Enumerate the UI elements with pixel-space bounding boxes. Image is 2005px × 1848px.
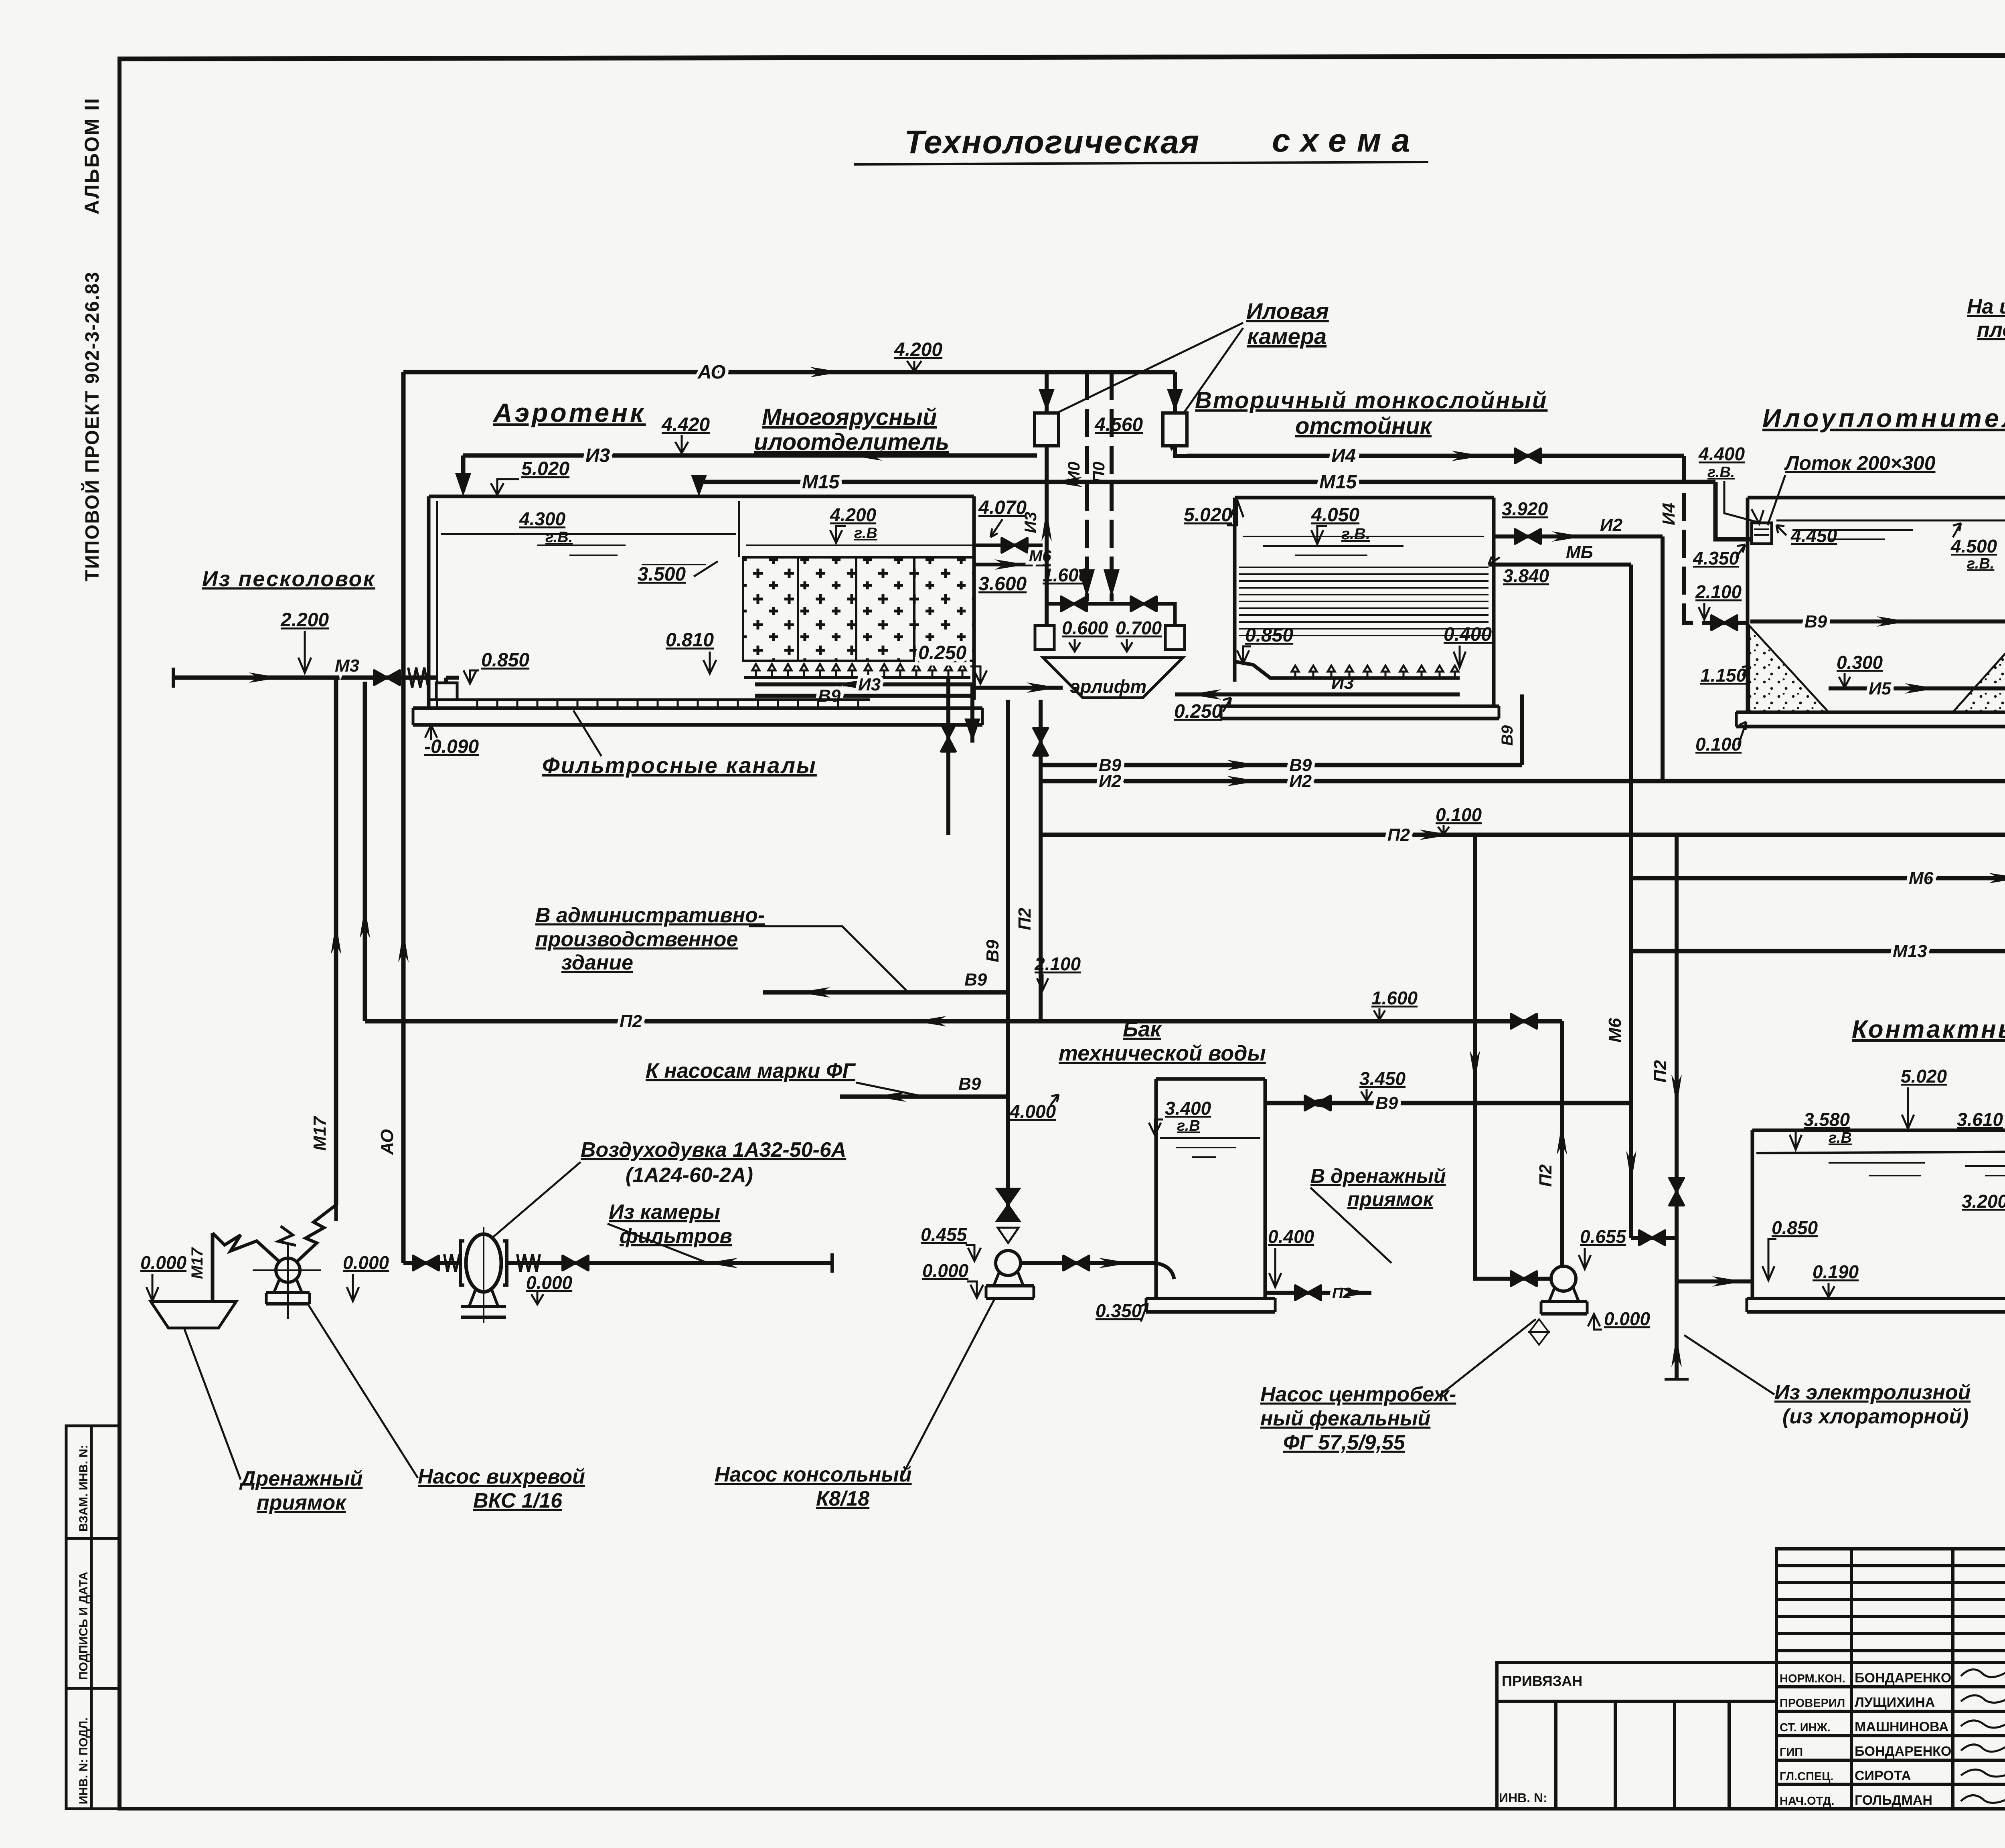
svg-text:0.700: 0.700 — [1116, 617, 1162, 638]
pipe В9 3.450 from water tank — [1265, 1101, 1631, 1105]
svg-text:И3: И3 — [585, 445, 610, 466]
svg-text:СТ. ИНЖ.: СТ. ИНЖ. — [1780, 1721, 1831, 1734]
svg-text:Вторичный тонкослойный: Вторичный тонкослойный — [1195, 387, 1547, 413]
svg-text:технической воды: технической воды — [1059, 1041, 1266, 1065]
svg-text:ИНВ. N:: ИНВ. N: — [1499, 1791, 1547, 1805]
svg-text:М13: М13 — [1893, 941, 1927, 961]
pipe М3 inlet — [173, 676, 437, 680]
vertical И0 pipe — [1085, 372, 1089, 601]
valve on И4 — [1515, 449, 1541, 463]
pipe pump to water tank — [1021, 1261, 1156, 1265]
эрлифт funnel — [1043, 658, 1183, 698]
svg-text:Из электролизной: Из электролизной — [1774, 1381, 1971, 1404]
sludge chamber box left — [1035, 413, 1059, 446]
valve on thickener inlet — [1709, 621, 1748, 625]
svg-text:(из хлораторной): (из хлораторной) — [1782, 1405, 1969, 1428]
svg-text:ВЗАМ. ИНВ. N:: ВЗАМ. ИНВ. N: — [77, 1445, 90, 1532]
svg-text:0.250: 0.250 — [918, 642, 966, 664]
svg-text:М17: М17 — [310, 1115, 330, 1151]
svg-text:3.840: 3.840 — [1503, 565, 1549, 586]
svg-text:4.000: 4.000 — [1009, 1101, 1056, 1122]
svg-text:П2: П2 — [620, 1012, 642, 1031]
svg-text:3.600: 3.600 — [978, 573, 1027, 595]
vertical М17 pipe left — [334, 678, 338, 1205]
svg-text:М6: М6 — [1605, 1018, 1625, 1042]
svg-text:0.600: 0.600 — [1062, 617, 1108, 638]
svg-text:(1А24-60-2А): (1А24-60-2А) — [626, 1164, 753, 1187]
svg-text:МБ: МБ — [1566, 542, 1593, 562]
pipe М15 — [699, 480, 1715, 484]
svg-text:ПРИВЯЗАН: ПРИВЯЗАН — [1502, 1673, 1582, 1689]
svg-text:3.450: 3.450 — [1359, 1068, 1406, 1089]
svg-text:ПРОВЕРИЛ: ПРОВЕРИЛ — [1780, 1697, 1845, 1710]
svg-text:4.070: 4.070 — [978, 497, 1027, 518]
wire М6 riser bend to pump line — [1631, 1236, 1677, 1240]
svg-text:3.500: 3.500 — [638, 564, 686, 585]
wire И3 elbow down into tank — [461, 455, 466, 491]
svg-text:4.400: 4.400 — [1698, 443, 1745, 464]
svg-text:В9: В9 — [958, 1074, 981, 1094]
svg-text:П2: П2 — [1536, 1164, 1555, 1187]
svg-text:0.190: 0.190 — [1813, 1261, 1859, 1282]
svg-text:3.580: 3.580 — [1804, 1109, 1850, 1130]
water level Аэротенк 4.300 — [441, 533, 736, 535]
svg-text:3.200: 3.200 — [1962, 1191, 2005, 1212]
flex and line out of blower to filters — [507, 1261, 832, 1265]
svg-text:И5: И5 — [1869, 679, 1892, 698]
М6 stub out of илоотделитель — [974, 563, 1051, 567]
tank илоотделитель hatch zone — [743, 557, 974, 661]
water level контактный — [1756, 1152, 2005, 1153]
sludge chamber box right — [1163, 413, 1187, 446]
pipe В9 bottom collector — [755, 694, 974, 698]
suction zigzag from pit — [213, 1233, 279, 1261]
svg-text:Илоуплотнитель: Илоуплотнитель — [1762, 404, 2005, 433]
tank base slab thickener — [1736, 712, 2005, 727]
svg-text:г.В.: г.В. — [1341, 525, 1370, 543]
pipe М13 run from polish plant — [1631, 949, 2005, 953]
drain pit дренажный приямок — [151, 1301, 236, 1328]
svg-text:Насос центробеж-: Насос центробеж- — [1260, 1383, 1456, 1406]
svg-text:И2: И2 — [1600, 515, 1623, 535]
svg-text:НАЧ.ОТД.: НАЧ.ОТД. — [1780, 1795, 1834, 1808]
pipe В9 2.100 branch — [763, 990, 1008, 995]
valve on М3 — [374, 670, 400, 685]
svg-text:ПОДПИСЬ И ДАТА: ПОДПИСЬ И ДАТА — [77, 1572, 90, 1680]
svg-text:П2: П2 — [1387, 825, 1410, 845]
svg-text:ЛУЩИХИНА: ЛУЩИХИНА — [1855, 1695, 1935, 1710]
svg-text:П2: П2 — [1651, 1060, 1670, 1083]
svg-text:4.450: 4.450 — [1790, 525, 1837, 546]
svg-text:0.100: 0.100 — [1695, 734, 1742, 755]
svg-text:-0.090: -0.090 — [424, 736, 479, 757]
svg-text:И2: И2 — [1289, 771, 1312, 791]
discharge zigzag to М17 riser — [298, 1205, 336, 1261]
svg-text:4.200: 4.200 — [894, 339, 942, 360]
title block table — [1497, 1549, 2005, 1809]
svg-text:ТИПОВОЙ ПРОЕКТ 902-3-26.83: ТИПОВОЙ ПРОЕКТ 902-3-26.83 — [81, 271, 103, 581]
pipe И3 top — [463, 453, 1037, 458]
pipe И3 outlet right of aerotank — [974, 686, 1063, 690]
svg-text:4.350: 4.350 — [1693, 548, 1740, 569]
svg-text:0.250: 0.250 — [1174, 701, 1222, 722]
pipe И4 — [1187, 454, 1684, 458]
vertical В9 pump feed at 2514 — [1006, 700, 1010, 1221]
svg-text:ВКС 1/16: ВКС 1/16 — [473, 1489, 563, 1512]
svg-text:0.100: 0.100 — [1436, 804, 1482, 825]
svg-text:0.655: 0.655 — [1580, 1226, 1627, 1247]
pipe АО top loop — [403, 370, 1175, 374]
svg-text:3.610: 3.610 — [1957, 1109, 2003, 1130]
pipe М6 run to polish plant — [1631, 876, 2005, 880]
svg-text:1.600: 1.600 — [1371, 988, 1418, 1008]
svg-text:4.500: 4.500 — [1950, 536, 1997, 557]
wire М17 into pit — [211, 1233, 215, 1301]
svg-text:ИНВ. N: ПОДЛ.: ИНВ. N: ПОДЛ. — [77, 1717, 90, 1804]
svg-text:0.810: 0.810 — [666, 629, 714, 651]
svg-text:Технологическая: Технологическая — [904, 124, 1200, 160]
svg-text:3.400: 3.400 — [1165, 1098, 1211, 1119]
vertical И3 pipe from chamber — [1045, 446, 1049, 625]
svg-text:К насосам марки ФГ: К насосам марки ФГ — [646, 1059, 856, 1083]
svg-text:0.400: 0.400 — [1268, 1226, 1314, 1247]
wire эрлифт header with valves — [1047, 604, 1175, 625]
svg-text:Воздуходувка 1А32-50-6А: Воздуходувка 1А32-50-6А — [581, 1138, 846, 1162]
svg-text:г.В.: г.В. — [1967, 555, 1994, 572]
vertical П2 pipe left — [363, 682, 367, 1021]
vertical П2 drain at 2595 — [1039, 700, 1043, 1021]
svg-text:Дренажный: Дренажный — [239, 1467, 363, 1490]
svg-text:Аэротенк: Аэротенк — [492, 398, 646, 427]
svg-text:0.000: 0.000 — [922, 1260, 969, 1281]
svg-text:Из камеры: Из камеры — [609, 1200, 720, 1224]
svg-text:2.100: 2.100 — [1695, 581, 1742, 602]
svg-text:М17: М17 — [188, 1247, 206, 1279]
pipe В9 through thickener — [1750, 619, 2005, 623]
svg-text:В9: В9 — [1499, 725, 1516, 746]
svg-text:площадки: площадки — [1977, 318, 2005, 342]
pipe И2 clarifier outlet — [1494, 534, 1663, 538]
svg-text:0.850: 0.850 — [481, 650, 529, 671]
vertical И4 down to thickener — [1684, 456, 1709, 623]
svg-text:Из песколовок: Из песколовок — [202, 567, 375, 591]
svg-text:5.020: 5.020 — [521, 458, 569, 480]
tank floor and base slab — [413, 700, 982, 725]
svg-text:И4: И4 — [1331, 445, 1356, 467]
svg-text:0.400: 0.400 — [1444, 624, 1492, 645]
sludge hopper right (dotted) — [1953, 625, 2005, 712]
signature squiggles — [1961, 1669, 2005, 1803]
wire М15 elbow down to trough — [1715, 482, 1752, 539]
svg-text:ГОЛЬДМАН: ГОЛЬДМАН — [1855, 1793, 1932, 1808]
svg-text:схема: схема — [1272, 122, 1420, 159]
svg-text:М15: М15 — [1319, 472, 1357, 493]
svg-text:ФГ 57,5/9,55: ФГ 57,5/9,55 — [1283, 1431, 1406, 1454]
blower Воздуходувка — [460, 1227, 507, 1323]
water level 4.500 — [1776, 520, 2005, 522]
svg-text:приямок: приямок — [1347, 1188, 1434, 1210]
wire АО drops into chamber boxes — [1045, 372, 1049, 413]
svg-text:4.420: 4.420 — [661, 414, 710, 435]
thin-layer module hatch — [1239, 567, 1489, 636]
wire М17 valve assembly above pump — [334, 1205, 338, 1221]
svg-text:Насос консольный: Насос консольный — [715, 1463, 912, 1486]
vertical И3 drain at 2365 — [946, 678, 950, 835]
flex coupling on М3 — [408, 668, 428, 688]
vertical П0 pipe — [1110, 372, 1114, 601]
svg-text:5.020: 5.020 — [1184, 504, 1232, 526]
wire П2 contact feed riser — [1677, 835, 1752, 1281]
pipe П2 0.100 run — [1041, 833, 2005, 837]
svg-text:отстойник: отстойник — [1295, 413, 1433, 439]
svg-text:В9: В9 — [1804, 612, 1827, 632]
svg-text:М6: М6 — [1909, 868, 1934, 888]
svg-text:Контактный резервуар: Контактный резервуар — [1852, 1016, 2005, 1043]
valve on М6 tap right of hatch — [974, 544, 1043, 547]
pipe П2 outlet from water tank — [1265, 1291, 1371, 1295]
svg-text:0.850: 0.850 — [1245, 625, 1293, 646]
pipe М6 clarifier tap 3.840 — [1489, 563, 1631, 567]
svg-text:АЛЬБОМ II: АЛЬБОМ II — [81, 97, 103, 215]
svg-text:г.В.: г.В. — [1707, 464, 1735, 481]
svg-text:Бак: Бак — [1123, 1017, 1162, 1041]
svg-text:На иловые: На иловые — [1967, 295, 2005, 318]
эрлифт connector boxes — [1035, 625, 1054, 650]
svg-text:Насос вихревой: Насос вихревой — [418, 1465, 585, 1488]
pump центробежный ФГ 57,5/9,55 — [1541, 1266, 1587, 1314]
wire М3 drop to floor box — [446, 678, 459, 700]
svg-text:2.200: 2.200 — [280, 609, 329, 631]
vertical М6 down — [1629, 565, 1633, 1238]
svg-text:камера: камера — [1247, 324, 1327, 349]
svg-text:5.020: 5.020 — [1901, 1066, 1947, 1087]
svg-text:0.000: 0.000 — [526, 1272, 573, 1293]
trough box лоток — [1752, 523, 1772, 544]
wire И3 drain stub — [970, 684, 974, 743]
stamp table bottom-left — [66, 1426, 119, 1809]
valve stack above pump — [997, 1189, 1019, 1243]
pipe В9 к насосам branch — [840, 1095, 1008, 1099]
pump консольный К8/18 — [986, 1251, 1034, 1298]
wire И2 riser down — [1661, 536, 1665, 782]
svg-text:М15: М15 — [802, 472, 840, 493]
svg-text:4.050: 4.050 — [1311, 504, 1359, 526]
svg-text:И3: И3 — [1331, 673, 1354, 693]
svg-text:И4: И4 — [1659, 503, 1679, 525]
svg-text:г.В: г.В — [1829, 1129, 1852, 1146]
svg-text:ный фекальный: ный фекальный — [1260, 1407, 1430, 1430]
pipe И3 bottom collector — [755, 682, 974, 686]
svg-text:СИРОТА: СИРОТА — [1855, 1768, 1911, 1783]
svg-text:АО: АО — [377, 1129, 397, 1155]
svg-text:ГЛ.СПЕЦ.: ГЛ.СПЕЦ. — [1780, 1770, 1834, 1783]
svg-text:эрлифт: эрлифт — [1070, 676, 1146, 697]
svg-text:производственное: производственное — [535, 928, 738, 951]
svg-text:здание: здание — [561, 951, 633, 974]
svg-text:Лоток 200×300: Лоток 200×300 — [1784, 452, 1936, 474]
svg-text:К8/18: К8/18 — [816, 1487, 869, 1510]
svg-text:Многоярусный: Многоярусный — [762, 404, 937, 430]
svg-text:БОНДАРЕНКО: БОНДАРЕНКО — [1855, 1670, 1951, 1686]
svg-text:4.560: 4.560 — [1094, 414, 1143, 435]
svg-text:И3: И3 — [1021, 512, 1040, 533]
svg-text:П2: П2 — [1015, 907, 1035, 930]
svg-text:4.200: 4.200 — [830, 504, 877, 525]
svg-text:г.В.: г.В. — [545, 529, 573, 546]
diffuser arrow row илоотделитель — [744, 664, 970, 678]
svg-text:И2: И2 — [1099, 771, 1122, 791]
svg-text:1.600: 1.600 — [1043, 565, 1089, 585]
small valve left of pump base — [1529, 1319, 1549, 1345]
svg-text:приямок: приямок — [257, 1491, 347, 1514]
wire electrolysis feed — [1675, 1281, 1679, 1379]
vertical И3 pipe from right chamber — [1175, 446, 1187, 456]
svg-text:0.300: 0.300 — [1837, 652, 1883, 673]
tank floor with diffusers — [1235, 662, 1460, 678]
svg-text:АО: АО — [697, 362, 726, 383]
pump вихревой ВКС 1/16 — [253, 1243, 321, 1319]
svg-text:г.В: г.В — [1177, 1117, 1200, 1134]
svg-text:В9: В9 — [983, 939, 1003, 962]
pipe И5 thickener bottom — [1829, 686, 2005, 690]
svg-text:В административно-: В административно- — [535, 904, 765, 927]
svg-text:В9: В9 — [1375, 1093, 1398, 1113]
vertical АО pipe to blower — [401, 372, 406, 1263]
svg-text:1.150: 1.150 — [1700, 665, 1747, 686]
фильтросные каналы row — [457, 700, 870, 708]
pipe В9 long run — [1043, 763, 1522, 767]
svg-text:В9: В9 — [964, 970, 987, 990]
svg-text:Фильтросные каналы: Фильтросные каналы — [542, 753, 817, 778]
svg-text:фильтров: фильтров — [620, 1225, 732, 1248]
wire В9 riser into clarifier — [1520, 694, 1524, 765]
sludge hopper left (dotted) — [1749, 625, 1829, 712]
svg-text:БОНДАРЕНКО: БОНДАРЕНКО — [1855, 1744, 1951, 1759]
svg-text:И3: И3 — [858, 675, 881, 694]
svg-text:0.000: 0.000 — [1604, 1308, 1651, 1329]
svg-text:Иловая: Иловая — [1246, 298, 1329, 324]
svg-text:илоотделитель: илоотделитель — [754, 429, 949, 455]
tank base slab отстойник — [1221, 706, 1499, 719]
valve and line into blower — [403, 1261, 460, 1265]
svg-text:0.350: 0.350 — [1096, 1300, 1142, 1321]
pipe И3 clarifier collector — [1175, 692, 1460, 696]
svg-text:0.850: 0.850 — [1772, 1217, 1818, 1238]
svg-text:М3: М3 — [335, 656, 359, 676]
left margin text: Альбом II — [81, 97, 103, 581]
svg-text:И0: И0 — [1064, 461, 1083, 483]
svg-text:НОРМ.КОН.: НОРМ.КОН. — [1780, 1672, 1845, 1685]
svg-text:0.000: 0.000 — [140, 1252, 187, 1273]
svg-text:3.920: 3.920 — [1502, 498, 1548, 519]
svg-text:г.В: г.В — [854, 525, 877, 542]
wire П2 discharge riser — [1560, 1021, 1564, 1266]
svg-text:0.455: 0.455 — [921, 1224, 968, 1245]
svg-text:0.000: 0.000 — [343, 1252, 389, 1273]
wire М15 elbow down into tank — [697, 482, 701, 492]
pipe И2 long run — [1043, 779, 2005, 783]
wire П2 suction riser — [1475, 835, 1502, 1279]
svg-text:В дренажный: В дренажный — [1310, 1165, 1446, 1187]
svg-text:П0: П0 — [1089, 461, 1108, 483]
svg-text:МАШНИНОВА: МАШНИНОВА — [1855, 1719, 1948, 1735]
pipe П2 1.600 run — [365, 1019, 1562, 1024]
svg-text:ГИП: ГИП — [1780, 1746, 1803, 1759]
svg-text:4.300: 4.300 — [519, 508, 566, 529]
svg-text:2.100: 2.100 — [1034, 953, 1081, 974]
